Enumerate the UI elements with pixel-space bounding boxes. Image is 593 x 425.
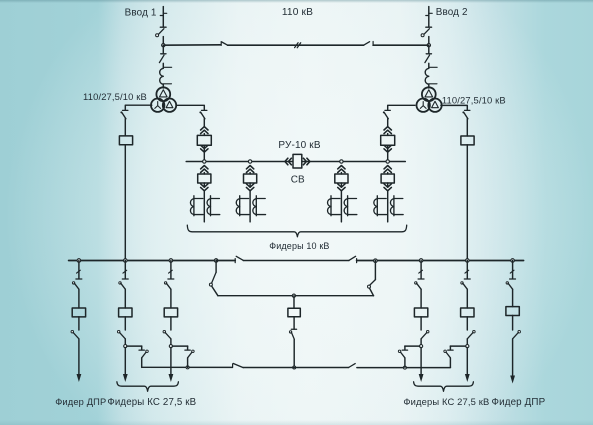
wire: bypass branch drop [187, 346, 189, 350]
wire: breaker T2 to 10 kV bus [387, 145, 389, 161]
wire: T2 10 kV column upper [387, 119, 389, 127]
transformer T1 HV star/delta mark [160, 90, 168, 97]
feeder lower disconnector (pivot) [518, 330, 521, 333]
junction: reserve breaker on bypass bus [293, 366, 296, 369]
junction: Ввод 2 on 110 kV tie [427, 44, 430, 47]
wire: breaker T1 to 10 kV bus [203, 145, 205, 161]
junction: feeder on 27.5 kV bus [124, 259, 128, 263]
feeder upper disconnector (blade) [417, 283, 422, 289]
svg-text:Фидеры 10 кВ: Фидеры 10 кВ [269, 241, 329, 251]
wire: 10 kV bus left section [186, 161, 292, 163]
junction: feeder on 27.5 kV bus [466, 259, 470, 263]
feeder upper disconnector (blade) [74, 283, 79, 289]
bypass branch disconnector (bar) [402, 349, 407, 351]
disconnector on column (contact bar) [202, 109, 207, 111]
bypass branch disconnector (blade) [188, 352, 192, 358]
svg-text:Фидер ДПР: Фидер ДПР [491, 397, 545, 408]
drawout contacts below main 10 kV breaker T1 [201, 149, 208, 152]
wire: to feeder breaker 2 [249, 173, 251, 174]
disconnector above transformer 1 (blade) [159, 55, 164, 62]
bypass branch disconnector (bar) [185, 349, 190, 351]
wire: incoming line Ввод 2 upper segment [428, 7, 430, 27]
feeder lower disconnector (pivot) [163, 330, 166, 333]
wire: 110 kV tie bus right segment [373, 44, 429, 46]
wire: Ввод 1 to 110 kV tie junction [162, 37, 164, 46]
transformer T1 right winding delta mark [166, 101, 173, 107]
wire: bypass branch horizontal [450, 345, 465, 347]
junction: reserve tap right on 27.5 kV bus [374, 259, 378, 263]
wire: feeder outgoing line [170, 348, 172, 374]
breaker 10 kV feeder 1 [198, 174, 211, 183]
wire: bypass bus right part [357, 367, 451, 369]
disconnector on column (contact bar) [465, 109, 470, 111]
wire: 10 kV feeder 2 outgoing line [249, 183, 251, 187]
wire: T1 27.5 kV column upper [124, 119, 126, 136]
svg-text:Фидер ДПР: Фидер ДПР [55, 397, 106, 407]
wire: T2 27.5 kV column upper [466, 119, 468, 136]
feeder transformer winding left (feeder 1) [190, 196, 203, 216]
tie disconnector left (blade) [222, 42, 228, 45]
bus section disconnector left (bar) [234, 259, 236, 263]
transformer T1 HV winding circle [156, 87, 170, 101]
feeder upper disconnector (tick) [419, 270, 423, 273]
wire: bypass branch to bypass bus [187, 358, 189, 367]
wire: coil to transformer 2 circles [428, 84, 430, 88]
feeder upper disconnector (blade) [121, 283, 126, 289]
wire: feeder outgoing line [124, 348, 126, 374]
feeder upper disconnector (tick) [465, 270, 469, 273]
bypass branch disconnector (pivot) [444, 350, 447, 353]
outgoing feeder arrow [77, 374, 82, 382]
wire: feeder outgoing line [78, 339, 80, 374]
wire: incoming line Ввод 1 upper segment [162, 7, 164, 27]
junction: 10 kV feeder 4 on bus [386, 160, 389, 163]
drawout contacts above main 10 kV breaker T2 [384, 127, 391, 130]
wire: disconnector to feeder breaker [420, 289, 422, 308]
wire: 27.5 kV bus middle section [243, 260, 349, 262]
bypass branch disconnector (blade) [401, 352, 405, 358]
drawout contacts above 10 kV feeder breaker 3 [338, 166, 345, 169]
transformer T2 27.5/10 winding circle (left) [417, 99, 430, 112]
junction: Ввод 1 on 110 kV tie [162, 44, 165, 47]
wire: breaker to lower disconnector [466, 317, 468, 330]
wire: into transformer 2 winding [428, 63, 430, 68]
svg-text:110/27,5/10 кВ: 110/27,5/10 кВ [442, 95, 506, 106]
bypass bus disconnector left (blade) [233, 364, 243, 368]
breaker 27.5 kV feeder [414, 308, 427, 317]
disconnector on column (contact bar) [385, 109, 390, 111]
brace: Фидеры КС right group [414, 382, 474, 392]
wire: bypass branch drop [404, 346, 406, 350]
wire: to feeder breaker 1 [203, 173, 205, 174]
wire: riser to reserve bus left [212, 286, 218, 296]
wire: transformer output to column corner [441, 105, 467, 110]
feeder transformer winding right (feeder 2) [253, 196, 266, 216]
svg-text:РУ-10 кВ: РУ-10 кВ [278, 140, 320, 151]
series winding coil (transformer 2) [425, 68, 429, 84]
tie disconnector left (bar) [220, 42, 222, 46]
wire: feeder drop from bus [512, 261, 514, 279]
drawout contacts below 10 kV feeder breaker 3 [338, 187, 345, 190]
line-break mark mid 110 kV tie [295, 43, 299, 48]
transformer T2 left winding mark [420, 102, 426, 109]
junction: feeder branch 2 on bypass bus [186, 366, 189, 369]
bypass branch disconnector (bar) [139, 349, 144, 351]
reserve tap right disconnector (blade) [370, 280, 376, 286]
wire: T1 10 kV column upper [203, 119, 205, 127]
wire: contacts to breaker T1 [203, 134, 205, 136]
feeder lower disconnector (blade) [120, 332, 126, 338]
bypass branch disconnector (pivot) [192, 350, 195, 353]
wire: T2 27.5 kV column to main bus [466, 145, 468, 261]
feeder upper disconnector (tick) [77, 270, 81, 273]
transformer T1 winding circle (right) [163, 99, 176, 112]
wire: bypass branch horizontal [172, 345, 187, 347]
feeder transformer winding left (feeder 2) [236, 196, 249, 216]
wire: coil to transformer 1 circles [162, 84, 164, 88]
disconnector on column (pivot) [199, 111, 201, 113]
junction: feeder / bypass branch [420, 339, 422, 345]
disconnector Ввод 2 (pivot) [421, 34, 424, 37]
feeder upper disconnector (pivot) [164, 282, 166, 284]
transformer T2 HV winding circle [422, 87, 436, 101]
wire: feeder outgoing line [512, 339, 514, 376]
wire: 10 kV feeder 1 outgoing line [203, 183, 205, 187]
svg-text:СВ: СВ [291, 175, 305, 186]
breaker T2 27.5 kV side [461, 136, 474, 145]
drawout contacts below 10 kV feeder breaker 2 [246, 187, 253, 190]
junction: feeder on 27.5 kV bus [77, 259, 81, 263]
feeder lower disconnector (blade) [165, 332, 171, 338]
tap tick upper (transformer 2) [429, 66, 437, 68]
bus section disconnector right (bar) [356, 259, 358, 263]
drawout contacts below 10 kV feeder breaker 1 [201, 187, 208, 190]
wire: disconnector to feeder breaker [170, 289, 172, 308]
disconnector on column (pivot) [383, 111, 385, 113]
wire: bypass branch to bypass bus [404, 358, 406, 367]
wire: feeder drop from bus [78, 261, 80, 279]
breaker T1 27.5 kV side [119, 136, 132, 145]
drawout contacts above 10 kV feeder breaker 2 [246, 166, 253, 169]
wire: transformer output to column corner [177, 105, 205, 110]
feeder lower disconnector (pivot) [473, 330, 476, 333]
svg-text:110/27,5/10 кВ: 110/27,5/10 кВ [83, 91, 147, 102]
wire: 10 kV feeder 4 outgoing line [387, 183, 389, 187]
wire: breaker to lower disconnector [78, 317, 80, 330]
feeder upper disconnector (bar) [122, 278, 128, 280]
feeder upper disconnector (bar) [168, 278, 174, 280]
feeder upper disconnector (blade) [508, 283, 513, 289]
outgoing feeder arrow [465, 374, 470, 382]
wire: 27.5 kV bus section 2 (right) [357, 260, 524, 262]
bus section disconnector left (blade) [236, 256, 243, 260]
main 10 kV breaker T1 [197, 135, 211, 145]
feeder upper disconnector (blade) [463, 283, 468, 289]
drawout contacts above 10 kV feeder breaker 4 [384, 166, 391, 169]
feeder upper disconnector (tick) [510, 270, 514, 273]
feeder upper disconnector (bar) [76, 278, 82, 280]
disconnector Ввод 1 (pivot) [156, 34, 159, 37]
wire: bypass bus centre part [243, 367, 348, 369]
disconnector on column (blade) [122, 113, 126, 119]
svg-text:Фидеры КС 27,5 кВ: Фидеры КС 27,5 кВ [403, 396, 489, 407]
bypass branch disconnector (pivot) [398, 350, 401, 353]
disconnector on column (blade) [384, 113, 388, 119]
wire: feeder drop from bus [466, 261, 468, 279]
breaker 10 kV feeder 2 [244, 174, 257, 183]
reserve breaker disconnector (blade) [291, 332, 294, 339]
drawout contacts above 10 kV feeder breaker 1 [201, 166, 208, 169]
wire: bypass branch to bypass bus [141, 358, 143, 367]
junction: feeder branch 3 on bypass bus [403, 366, 406, 369]
bypass branch disconnector (blade) [446, 352, 450, 358]
feeder upper disconnector (pivot) [72, 282, 74, 284]
disconnector Ввод 1 (blade) [159, 29, 164, 34]
tie disconnector right (bar) [372, 42, 374, 46]
junction: feeder on 27.5 kV bus [419, 259, 423, 263]
wire: breaker to lower disconnector [170, 317, 172, 330]
feeder upper disconnector (tick) [169, 270, 173, 273]
transformer T2 HV star/delta mark [425, 90, 433, 97]
drawout contacts left of СВ [288, 158, 291, 165]
wire: 27.5 kV bus section 1 (left) [69, 260, 217, 262]
feeder lower disconnector (pivot) [117, 330, 120, 333]
wire: to feeder breaker 3 [340, 173, 342, 174]
feeder upper disconnector (pivot) [119, 282, 121, 284]
disconnector above transformer 1 (contact bar) [161, 53, 166, 55]
junction: feeder on 27.5 kV bus [169, 259, 173, 263]
wire: disconnector to feeder breaker [78, 289, 80, 308]
reserve tap right disconnector (pivot) [368, 285, 371, 288]
wire: riser to reserve bus right [370, 288, 374, 296]
wire: 110 kV tie bus middle segment [228, 44, 364, 46]
breaker 27.5 kV feeder [164, 308, 177, 317]
junction: reserve breaker on reserve bus [292, 294, 295, 297]
feeder lower disconnector (blade) [513, 332, 519, 338]
wire: Ввод 2 down to transformer disconnector [428, 45, 430, 53]
junction: feeder on 27.5 kV bus [511, 259, 515, 263]
brace: Фидеры КС left group [117, 382, 178, 392]
junction: reserve tap left on 27.5 kV bus [214, 259, 218, 263]
transformer T1 27.5/10 winding circle (left) [151, 99, 164, 112]
drawout contacts below 10 kV feeder breaker 4 [384, 187, 391, 190]
outgoing feeder arrow [419, 374, 424, 382]
wire: reserve breaker to bypass bus [293, 340, 295, 368]
reserve breaker 27.5 kV [288, 308, 300, 317]
disconnector on column (blade) [464, 113, 468, 119]
svg-text:Ввод 1: Ввод 1 [125, 7, 157, 18]
wire: breaker to lower disconnector [124, 317, 126, 330]
bypass branch disconnector (blade) [142, 352, 146, 358]
disconnector Ввод 2 (contact bar) [426, 26, 432, 28]
wire: reserve tap right drop [374, 261, 376, 280]
feeder lower disconnector (blade) [73, 332, 79, 338]
wire: feeder drop from bus [124, 261, 126, 279]
junction: 10 kV feeder 1 on bus [203, 160, 206, 163]
breaker 27.5 kV feeder [461, 308, 474, 317]
reserve breaker disconnector (bar) [291, 328, 296, 330]
wire: feeder outgoing line [466, 348, 468, 374]
transformer T1 left winding mark [155, 102, 161, 109]
wire: 110 kV tie bus left segment [163, 44, 220, 46]
outgoing feeder arrow [510, 376, 515, 384]
feeder upper disconnector (bar) [418, 278, 424, 280]
disconnector above transformer 2 (blade) [425, 55, 430, 62]
wire: feeder drop from bus [170, 261, 172, 279]
wire: to feeder breaker 4 [387, 173, 389, 174]
junction: 10 kV feeder 2 on bus [248, 160, 251, 163]
junction: feeder / bypass branch [124, 339, 126, 345]
feeder lower disconnector (pivot) [71, 330, 74, 333]
wire: bypass branch horizontal [127, 345, 142, 347]
tap tick lower (transformer 2) [429, 83, 437, 85]
wire: 10 kV feeder 3 outgoing line [340, 183, 342, 187]
disconnector on column (contact bar) [123, 109, 128, 111]
wire: bypass branch drop [449, 346, 451, 350]
wire: 10 kV bus right section [302, 161, 405, 163]
wire: disconnector to feeder breaker [466, 289, 468, 308]
wire: reserve tap left drop [215, 261, 217, 273]
feeder upper disconnector (bar) [510, 278, 516, 280]
feeder transformer winding left (feeder 4) [374, 196, 387, 216]
wire: Ввод 2 to 110 kV tie junction [428, 37, 430, 46]
breaker 27.5 kV feeder [72, 308, 85, 317]
feeder transformer winding right (feeder 1) [207, 196, 220, 216]
disconnector on column (blade) [201, 113, 205, 119]
wire: bypass bus left part [142, 366, 233, 368]
tap tick upper (transformer 1) [163, 66, 171, 68]
feeder upper disconnector (pivot) [415, 282, 417, 284]
line-break mark on Ввод 2 [429, 12, 432, 14]
feeder transformer winding left (feeder 3) [328, 196, 341, 216]
bypass bus disconnector (blade) [349, 364, 356, 368]
wire: transformer output to column corner [388, 105, 415, 110]
wire: transformer output to column corner [125, 105, 152, 110]
tap tick lower (transformer 1) [163, 83, 171, 85]
feeder lower disconnector (blade) [467, 332, 473, 338]
feeder upper disconnector (pivot) [506, 282, 508, 284]
breaker 10 kV feeder 3 [335, 174, 348, 183]
wire: disconnector to feeder breaker [124, 289, 126, 308]
wire: breaker to lower disconnector [420, 317, 422, 330]
wire: bypass branch horizontal [405, 345, 420, 347]
reserve tap left disconnector (pivot) [209, 283, 212, 286]
wire: bypass branch drop [141, 346, 143, 350]
transformer T2 winding circle (right) [428, 99, 441, 112]
drawout contacts below main 10 kV breaker T2 [384, 149, 391, 152]
disconnector Ввод 1 (contact bar) [160, 26, 166, 28]
wire: reserve bus to reserve breaker [293, 296, 295, 309]
wire: Ввод 1 down to transformer disconnector [162, 45, 164, 53]
disconnector on column (pivot) [462, 111, 464, 113]
disconnector Ввод 2 (blade) [424, 29, 429, 34]
breaker 27.5 kV feeder [119, 308, 132, 317]
bypass bus disconnector left (bar) [232, 364, 234, 368]
wire: breaker to lower disconnector [512, 316, 514, 331]
wire: contacts to breaker T2 [387, 134, 389, 136]
junction: feeder / bypass branch [466, 339, 468, 345]
wire: feeder outgoing line [420, 348, 422, 374]
outgoing feeder arrow [169, 374, 174, 382]
wire: reserve breaker to disconnector [293, 317, 295, 329]
feeder upper disconnector (blade) [166, 283, 171, 289]
feeder transformer winding right (feeder 4) [390, 196, 403, 216]
breaker 10 kV feeder 4 [381, 174, 394, 183]
outgoing feeder arrow [123, 374, 128, 382]
breaker 27.5 kV feeder [506, 307, 519, 316]
wire: 27.5 kV bus to left section break [216, 260, 235, 262]
feeder lower disconnector (pivot) [426, 330, 429, 333]
wire: feeder drop from bus [420, 261, 422, 279]
feeder lower disconnector (blade) [421, 332, 427, 338]
drawout contacts right of СВ [303, 158, 306, 165]
bus section disconnector right (blade) [349, 256, 356, 260]
line-break mark on Ввод 1 [163, 12, 166, 14]
brace: Фидеры 10 кВ group [187, 225, 406, 237]
series winding coil (transformer 1) [160, 68, 164, 84]
feeder upper disconnector (bar) [464, 278, 470, 280]
wire: bypass branch to bypass bus [449, 358, 451, 367]
wire: into transformer 1 winding [162, 63, 164, 68]
feeder transformer winding right (feeder 3) [344, 196, 357, 216]
main 10 kV breaker T2 [381, 135, 395, 145]
bypass branch disconnector (bar) [448, 349, 453, 351]
tie disconnector right (blade) [364, 42, 370, 46]
bypass branch disconnector (pivot) [146, 350, 149, 353]
wire: reserve bus [218, 295, 374, 297]
junction: feeder / bypass branch [170, 339, 172, 345]
svg-text:110 кВ: 110 кВ [282, 7, 313, 18]
wire: disconnector to feeder breaker [512, 289, 514, 306]
feeder upper disconnector (tick) [123, 270, 127, 273]
junction: 10 kV feeder 3 on bus [340, 160, 343, 163]
feeder upper disconnector (pivot) [461, 282, 463, 284]
svg-text:Ввод 2: Ввод 2 [436, 7, 468, 18]
section breaker СВ on 10 kV bus [293, 154, 302, 168]
reserve tap left disconnector (blade) [212, 272, 217, 283]
reserve breaker disconnector (pivot) [289, 331, 291, 333]
disconnector on column (pivot) [120, 111, 122, 113]
transformer T2 right winding delta mark [432, 101, 439, 107]
wire: T1 27.5 kV column to main bus [124, 145, 126, 261]
disconnector above transformer 2 (contact bar) [426, 53, 431, 55]
drawout contacts above main 10 kV breaker T1 [201, 127, 208, 130]
svg-text:Фидеры КС 27,5 кВ: Фидеры КС 27,5 кВ [107, 397, 196, 408]
